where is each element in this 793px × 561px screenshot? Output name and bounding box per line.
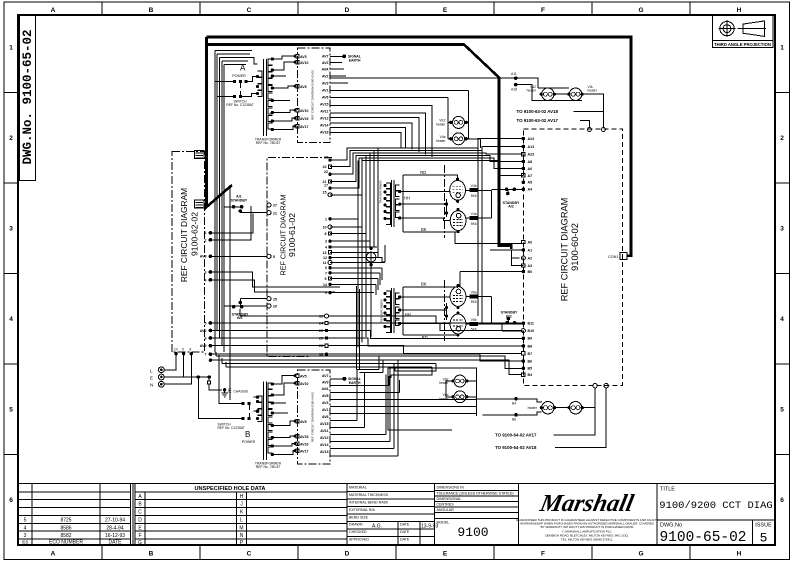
svg-text:5: 5 — [760, 531, 768, 546]
svg-text:2: 2 — [780, 135, 784, 142]
svg-text:MATERIAL THICKNESS: MATERIAL THICKNESS — [349, 493, 389, 497]
svg-text:2: 2 — [205, 238, 207, 242]
svg-text:AVA: AVA — [322, 68, 329, 72]
svg-text:5: 5 — [780, 407, 784, 414]
svg-text:REF No. 780-87: REF No. 780-87 — [256, 465, 281, 469]
svg-text:HH: HH — [404, 195, 410, 200]
svg-text:11: 11 — [323, 261, 327, 265]
svg-text:A: A — [51, 551, 56, 558]
svg-text:C: C — [138, 510, 142, 516]
svg-text:BK: BK — [421, 227, 427, 232]
svg-text:L: L — [240, 517, 243, 523]
svg-text:DIMENSIONAL: DIMENSIONAL — [437, 497, 462, 501]
svg-text:AV14: AV14 — [320, 124, 329, 128]
svg-text:G: G — [638, 7, 643, 14]
svg-text:AV13: AV13 — [320, 450, 329, 454]
svg-text:REF CIRCUIT DIAGRAM: REF CIRCUIT DIAGRAM — [179, 188, 189, 282]
svg-text:28: 28 — [324, 156, 328, 160]
svg-text:5: 5 — [273, 255, 275, 259]
svg-text:8: 8 — [325, 232, 327, 236]
svg-text:G: G — [138, 540, 142, 546]
svg-text:9100-61-02: 9100-61-02 — [287, 213, 297, 257]
svg-text:AV16: AV16 — [300, 443, 309, 447]
svg-text:DATE: DATE — [400, 523, 410, 527]
svg-text:AV19: AV19 — [300, 117, 309, 121]
svg-text:AV11: AV11 — [320, 110, 328, 114]
svg-text:REF No. 780-87: REF No. 780-87 — [256, 141, 281, 145]
svg-text:5: 5 — [9, 407, 13, 414]
svg-text:4: 4 — [24, 525, 27, 531]
svg-text:POWER: POWER — [242, 440, 256, 444]
svg-text:TITLE: TITLE — [660, 487, 675, 493]
svg-text:INTERNAL BEND RADII: INTERNAL BEND RADII — [349, 501, 388, 505]
svg-text:BY WARRANTY WITHOUT THIS PRODU: BY WARRANTY WITHOUT THIS PRODUCT IS PURC… — [541, 525, 634, 529]
svg-text:B11: B11 — [528, 322, 534, 326]
svg-text:B0: B0 — [528, 270, 533, 274]
svg-text:CENTRES: CENTRES — [437, 503, 455, 507]
svg-text:B: B — [245, 430, 250, 439]
svg-text:AV1: AV1 — [322, 89, 329, 93]
svg-text:REF CIRCUIT DIAGRAM 9100-64-02: REF CIRCUIT DIAGRAM 9100-64-02 — [311, 392, 315, 442]
svg-text:REF No. C1235AT: REF No. C1235AT — [226, 103, 253, 107]
svg-text:AV9: AV9 — [322, 381, 329, 385]
svg-text:6: 6 — [780, 497, 784, 504]
svg-text:APPROVED: APPROVED — [349, 538, 369, 542]
svg-text:3: 3 — [9, 226, 13, 233]
svg-text:7: 7 — [205, 353, 207, 357]
svg-text:TO 9100-64-02 AV17: TO 9100-64-02 AV17 — [495, 432, 537, 437]
svg-text:9100-65-02: 9100-65-02 — [659, 530, 746, 546]
svg-text:TO 9100-64-02 AV18: TO 9100-64-02 AV18 — [495, 445, 537, 450]
svg-text:A13: A13 — [528, 145, 535, 149]
svg-text:AV5: AV5 — [300, 55, 307, 59]
svg-text:V6b: V6b — [471, 318, 477, 322]
svg-text:DWG.No. 9100-65-02: DWG.No. 9100-65-02 — [21, 29, 35, 164]
svg-text:3: 3 — [780, 226, 784, 233]
svg-text:AV2: AV2 — [322, 61, 329, 65]
svg-text:1: 1 — [780, 45, 784, 52]
svg-text:B4: B4 — [512, 402, 516, 406]
svg-text:ISSUE: ISSUE — [755, 523, 772, 529]
svg-text:10: 10 — [174, 348, 178, 352]
svg-text:A8: A8 — [528, 160, 533, 164]
svg-text:ANGULAR: ANGULAR — [437, 508, 455, 512]
svg-text:A.G.: A.G. — [372, 524, 382, 530]
svg-text:E: E — [443, 551, 448, 558]
svg-text:H: H — [737, 7, 742, 14]
svg-text:4: 4 — [205, 278, 207, 282]
svg-text:AV6: AV6 — [322, 415, 329, 419]
svg-text:TRANSFORMER: TRANSFORMER — [380, 299, 384, 323]
svg-text:TRANSFORMER: TRANSFORMER — [379, 180, 383, 204]
svg-text:10: 10 — [323, 225, 327, 229]
svg-text:8: 8 — [190, 348, 192, 352]
svg-text:TOLERANCE (UNLESS OTHERWISE ST: TOLERANCE (UNLESS OTHERWISE STATED) — [437, 492, 514, 496]
svg-text:A11: A11 — [511, 72, 517, 76]
svg-text:EARTH: EARTH — [349, 58, 361, 62]
svg-text:AV17: AV17 — [300, 125, 309, 129]
svg-text:BK: BK — [421, 281, 427, 286]
svg-text:9100-60-02: 9100-60-02 — [569, 223, 580, 271]
svg-text:13: 13 — [323, 251, 327, 255]
svg-text:AV10: AV10 — [300, 61, 309, 65]
svg-text:heater: heater — [436, 122, 446, 126]
svg-text:heater: heater — [439, 397, 449, 401]
svg-text:C: C — [247, 7, 252, 14]
svg-text:B8: B8 — [528, 344, 533, 348]
svg-text:REF No. C1235AT: REF No. C1235AT — [218, 426, 245, 430]
svg-text:AV3: AV3 — [322, 401, 329, 405]
svg-text:27: 27 — [273, 204, 277, 208]
svg-text:16-12-93: 16-12-93 — [105, 533, 125, 539]
svg-text:AV18: AV18 — [300, 435, 309, 439]
svg-text:EARTH: EARTH — [349, 381, 361, 385]
svg-text:V6a: V6a — [471, 290, 477, 294]
svg-text:DWG.No: DWG.No — [660, 523, 682, 529]
svg-text:B/1: B/1 — [237, 316, 243, 320]
svg-text:27-10-94: 27-10-94 — [105, 518, 125, 524]
svg-text:AV17: AV17 — [300, 450, 309, 454]
svg-text:A/2: A/2 — [508, 205, 514, 209]
svg-text:heater: heater — [436, 139, 446, 143]
svg-text:3: 3 — [325, 240, 327, 244]
svg-text:B6: B6 — [528, 360, 533, 364]
svg-text:heater: heater — [439, 381, 449, 385]
svg-text:4: 4 — [780, 316, 784, 323]
svg-text:E: E — [150, 376, 153, 381]
svg-text:3: 3 — [24, 533, 27, 539]
svg-text:3: 3 — [205, 270, 207, 274]
svg-text:B7: B7 — [528, 352, 533, 356]
svg-text:H: H — [240, 494, 244, 500]
svg-text:28-4-94: 28-4-94 — [106, 525, 123, 531]
svg-text:1: 1 — [9, 45, 13, 52]
svg-text:A1: A1 — [528, 248, 533, 252]
svg-text:AV12: AV12 — [320, 436, 329, 440]
svg-text:AV15: AV15 — [320, 422, 329, 426]
svg-text:RD: RD — [420, 170, 426, 175]
svg-text:8586: 8586 — [60, 525, 71, 531]
svg-text:7: 7 — [325, 271, 327, 275]
svg-text:1: 1 — [205, 231, 207, 235]
svg-text:B10: B10 — [528, 329, 535, 333]
svg-text:AV10: AV10 — [300, 109, 309, 113]
svg-text:AV5: AV5 — [300, 375, 307, 379]
svg-text:5K6: 5K6 — [471, 300, 477, 304]
svg-text:1: 1 — [325, 217, 327, 221]
svg-text:21: 21 — [273, 211, 277, 215]
svg-text:8582: 8582 — [60, 533, 71, 539]
svg-text:F: F — [138, 533, 141, 539]
svg-text:TEL: MILTON KEYNES (0908) 3754: TEL: MILTON KEYNES (0908) 375411. — [561, 538, 613, 542]
svg-text:UNSPECIFIED HOLE DATA: UNSPECIFIED HOLE DATA — [195, 486, 266, 492]
svg-text:17: 17 — [324, 184, 328, 188]
svg-text:20: 20 — [273, 305, 277, 309]
svg-text:4: 4 — [325, 245, 327, 249]
svg-text:AV8: AV8 — [300, 420, 307, 424]
svg-text:D: D — [138, 517, 142, 523]
svg-text:H: H — [737, 551, 742, 558]
svg-text:DATE: DATE — [400, 538, 410, 542]
svg-text:25: 25 — [273, 297, 277, 301]
svg-text:AV12: AV12 — [320, 117, 329, 121]
svg-text:AV1: AV1 — [322, 408, 329, 412]
svg-text:AV10: AV10 — [300, 382, 309, 386]
svg-text:B: B — [149, 7, 154, 14]
svg-text:B6: B6 — [512, 418, 516, 422]
svg-text:B9: B9 — [528, 337, 533, 341]
svg-text:5: 5 — [205, 321, 207, 325]
svg-text:DIMENSIONS IN: DIMENSIONS IN — [437, 485, 465, 489]
svg-text:ISS: ISS — [22, 540, 29, 545]
svg-text:AV9: AV9 — [200, 344, 207, 348]
svg-text:F: F — [541, 7, 545, 14]
svg-text:AV18: AV18 — [320, 131, 329, 135]
svg-text:E: E — [443, 7, 448, 14]
svg-text:EXTERNAL R/A: EXTERNAL R/A — [349, 508, 375, 512]
svg-text:ECO NUMBER: ECO NUMBER — [49, 540, 83, 546]
svg-text:AV7: AV7 — [322, 55, 329, 59]
svg-text:DRAWN: DRAWN — [349, 523, 363, 527]
svg-text:A: A — [51, 7, 56, 14]
svg-text:MATERIAL: MATERIAL — [349, 486, 367, 490]
svg-text:5: 5 — [24, 518, 27, 524]
svg-text:9100-62-02: 9100-62-02 — [190, 212, 200, 256]
svg-text:DATE: DATE — [400, 530, 410, 534]
svg-text:V4b: V4b — [471, 184, 477, 188]
svg-text:V4a: V4a — [471, 212, 477, 216]
svg-text:THIRD ANGLE PROJECTION: THIRD ANGLE PROJECTION — [714, 42, 771, 47]
svg-text:CON1: CON1 — [608, 255, 619, 259]
svg-text:Marshall: Marshall — [537, 490, 636, 517]
svg-text:heater: heater — [588, 89, 598, 93]
svg-text:24: 24 — [323, 165, 327, 169]
svg-text:AVA: AVA — [322, 387, 329, 391]
svg-text:B: B — [149, 551, 154, 558]
svg-text:STANDBY: STANDBY — [231, 198, 248, 202]
svg-text:AV7: AV7 — [322, 374, 329, 378]
svg-text:A4: A4 — [528, 188, 533, 192]
svg-text:22: 22 — [324, 170, 328, 174]
svg-text:A6: A6 — [528, 167, 533, 171]
svg-text:CHECKED: CHECKED — [349, 530, 367, 534]
svg-text:6: 6 — [9, 497, 13, 504]
svg-text:A3: A3 — [528, 264, 533, 268]
svg-text:M: M — [239, 526, 243, 532]
svg-text:AV3: AV3 — [322, 82, 329, 86]
svg-text:AV2: AV2 — [322, 75, 329, 79]
svg-text:A18: A18 — [511, 87, 517, 91]
svg-text:D: D — [345, 7, 350, 14]
svg-text:D: D — [345, 551, 350, 558]
svg-text:6: 6 — [205, 336, 207, 340]
svg-text:C: C — [247, 551, 252, 558]
svg-text:12: 12 — [323, 256, 327, 260]
svg-text:9100/9200 CCT DIAG: 9100/9200 CCT DIAG — [659, 500, 772, 512]
svg-text:9: 9 — [182, 348, 184, 352]
svg-text:TO 9100-63-02 AV17: TO 9100-63-02 AV17 — [517, 118, 559, 123]
svg-text:F: F — [541, 551, 545, 558]
svg-text:BEND SIZE: BEND SIZE — [349, 516, 369, 520]
svg-text:4: 4 — [9, 316, 13, 323]
svg-text:8725: 8725 — [60, 518, 71, 524]
svg-text:AV14: AV14 — [320, 443, 329, 447]
svg-text:15: 15 — [323, 190, 327, 194]
svg-text:6: 6 — [325, 266, 327, 270]
svg-text:A0: A0 — [528, 240, 533, 244]
svg-text:B4: B4 — [528, 373, 533, 377]
svg-text:5K6: 5K6 — [471, 194, 477, 198]
svg-text:REF CIRCUIT DIAGRAM: REF CIRCUIT DIAGRAM — [560, 198, 570, 301]
svg-text:AV11: AV11 — [320, 429, 328, 433]
svg-text:AV6: AV6 — [322, 96, 329, 100]
svg-text:A5: A5 — [528, 181, 533, 185]
svg-text:A24: A24 — [528, 137, 535, 141]
svg-text:N: N — [240, 533, 244, 539]
svg-text:A2: A2 — [528, 256, 533, 260]
svg-text:5K6: 5K6 — [471, 222, 477, 226]
svg-text:G: G — [638, 551, 643, 558]
svg-text:N: N — [150, 383, 153, 388]
svg-text:AV8: AV8 — [300, 85, 307, 89]
svg-text:POWER: POWER — [232, 74, 246, 78]
svg-text:AV2: AV2 — [200, 329, 207, 333]
svg-text:MODEL: MODEL — [437, 521, 450, 525]
svg-text:B5: B5 — [528, 367, 533, 371]
svg-text:CHASSIS: CHASSIS — [234, 390, 249, 394]
svg-text:heater: heater — [528, 406, 538, 410]
svg-text:A7: A7 — [528, 174, 533, 178]
svg-text:9100: 9100 — [457, 525, 488, 540]
svg-text:AV15: AV15 — [320, 103, 329, 107]
svg-text:DATE: DATE — [109, 540, 123, 546]
svg-text:9: 9 — [325, 277, 327, 281]
svg-text:2: 2 — [9, 135, 13, 142]
svg-text:RD: RD — [422, 335, 428, 340]
svg-text:14: 14 — [323, 283, 327, 287]
svg-text:AV8: AV8 — [322, 394, 329, 398]
svg-text:TO 9100-63-02 AV18: TO 9100-63-02 AV18 — [517, 109, 559, 114]
svg-text:REF CIRCUIT DIAGRAM 9100-63-02: REF CIRCUIT DIAGRAM 9100-63-02 — [311, 70, 315, 120]
svg-text:AV8: AV8 — [200, 255, 207, 259]
svg-text:A23: A23 — [528, 153, 535, 157]
